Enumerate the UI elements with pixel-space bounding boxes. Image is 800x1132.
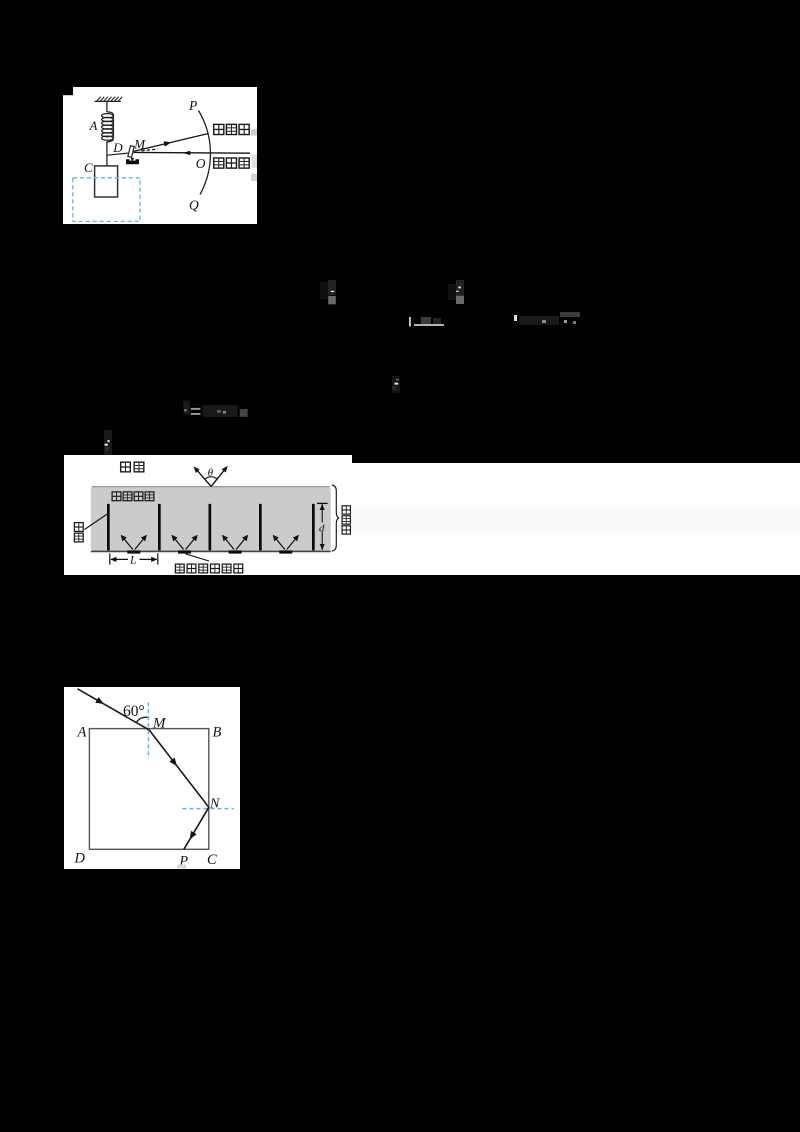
svg-text:N: N [209,796,220,811]
svg-text:L: L [129,555,136,567]
svg-text:M: M [133,136,146,151]
svg-text:C: C [207,852,217,868]
svg-text:d: d [319,522,325,534]
svg-text:C: C [84,160,93,175]
svg-text:A: A [77,725,87,741]
svg-text:B: B [213,725,222,741]
svg-text:A: A [89,118,98,133]
svg-text:D: D [112,140,123,155]
svg-text:θ: θ [208,467,214,479]
svg-text:O: O [196,156,206,171]
svg-text:D: D [74,851,86,867]
svg-text:Q: Q [189,197,199,212]
svg-text:M: M [152,715,167,731]
svg-text:P: P [188,98,197,113]
